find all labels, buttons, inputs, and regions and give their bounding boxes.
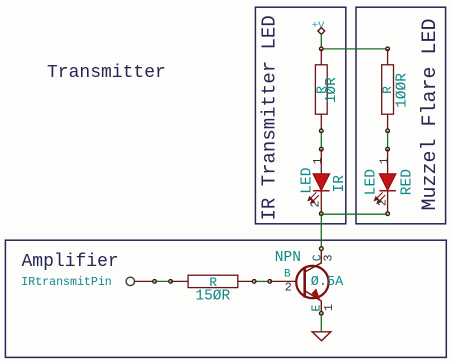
resistor R3 pin 2 wire [238,280,254,282]
resistor R2 pin 1 wire [387,49,389,65]
LED2 cathode wire [387,191,389,214]
transistor Q1 emitter arrow [311,288,320,300]
pin endpoint R2 top [386,47,390,51]
net LED cathodes horizontal [321,213,387,215]
svg-text:IRtransmitPin: IRtransmitPin [21,276,111,289]
resistor R1 pin 1 wire [320,49,322,65]
pin endpoint R2 bottom [386,129,390,133]
svg-text:LED: LED [363,169,379,195]
net R3 to base [254,280,270,282]
port circle IRtransmitPin [126,277,134,285]
svg-text:Transmitter: Transmitter [47,63,166,83]
resistor R3 pin 1 wire [171,280,189,282]
LED1 triangle [313,174,330,190]
pin endpoint R3 left [169,280,173,284]
LED2 emission arrow b [377,195,385,203]
frame box Amplifier [5,240,446,357]
pin endpoint R1 bottom [320,129,324,133]
svg-text:Muzzel Flare LED: Muzzel Flare LED [419,18,442,210]
pin endpoint LED2 bottom [386,212,390,216]
pin endpoint base [268,280,272,284]
svg-text:IR Transmitter LED: IR Transmitter LED [259,15,281,220]
resistor R1 body [315,65,327,114]
svg-text:IR: IR [332,175,348,193]
LED1 emission arrow b [311,195,319,203]
svg-text:LED: LED [300,168,316,194]
net R2 to LED2 [387,131,389,149]
svg-text:1ØØR: 1ØØR [395,73,411,108]
pin endpoint port [153,280,157,284]
LED1 emission arrow a [308,192,316,200]
svg-text:3: 3 [322,254,336,261]
pin endpoint collector [320,247,324,251]
pin endpoint emitter [320,312,324,316]
svg-text:1ØR: 1ØR [324,77,340,103]
pin endpoint LED2 top [386,147,390,151]
net emitter to ground [320,313,322,331]
ground symbol [312,332,331,341]
frame box IR Transmitter LED [255,7,345,224]
svg-text:NPN: NPN [275,250,301,266]
net port to R3 [155,280,171,282]
net +V horizontal to R2 [321,48,387,50]
net LED1 cathode to collector [320,214,322,249]
transistor Q1 collector line [305,249,322,272]
svg-text:RED: RED [400,169,416,195]
LED2 emission arrow a [375,192,383,200]
LED2 cathode bar [379,190,396,192]
LED2 triangle [379,174,396,190]
pin endpoint LED1 top [320,147,324,151]
transistor Q1 circle [296,266,328,298]
frame box Muzzel Flare LED [356,7,446,224]
svg-text:Ø.5A: Ø.5A [311,275,344,290]
LED2 anode wire [387,149,389,174]
supply +V diamond symbol [318,28,325,35]
pin endpoint R3 right [252,280,256,284]
resistor R2 pin 2 wire [387,114,389,131]
svg-text:B: B [284,269,291,281]
resistor R2 body [382,65,394,114]
LED1 anode wire [320,149,322,174]
net +V vertical to junction [320,34,322,49]
svg-text:1: 1 [312,157,325,164]
resistor R3 body [188,275,238,287]
svg-text:15ØR: 15ØR [195,289,230,305]
svg-text:R: R [380,86,395,94]
svg-text:1: 1 [322,304,336,311]
net R1 to LED1 [320,131,322,149]
transistor Q1 emitter line [305,291,322,314]
LED1 cathode wire [320,191,322,214]
transistor Q1 base bar [303,267,306,297]
pin endpoint R1 top [320,47,324,51]
svg-text:1: 1 [378,157,391,164]
transistor Q1 base pin wire [270,280,297,282]
port pin wire [135,280,155,282]
resistor R1 pin 2 wire [320,114,322,131]
svg-text:Amplifier: Amplifier [22,252,119,272]
svg-text:2: 2 [285,280,292,294]
LED1 cathode bar [313,190,330,192]
pin endpoint LED1 bottom [320,212,324,216]
